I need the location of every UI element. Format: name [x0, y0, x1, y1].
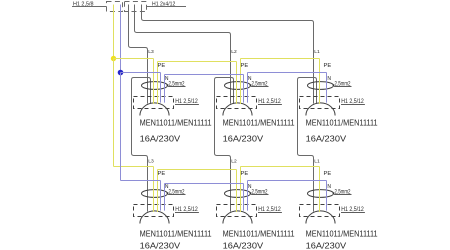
svg-text:H1 2,5/8: H1 2,5/8 [73, 2, 94, 8]
svg-text:16A/230V: 16A/230V [306, 241, 347, 250]
svg-text:MEN11011/MEN11111: MEN11011/MEN11111 [140, 117, 212, 127]
svg-text:PE: PE [324, 63, 332, 69]
svg-text:16A/230V: 16A/230V [223, 133, 264, 143]
svg-text:H1 2,5/12: H1 2,5/12 [258, 206, 281, 213]
svg-text:MEN11011/MEN11111: MEN11011/MEN11111 [223, 229, 295, 239]
svg-text:MEN11011/MEN11111: MEN11011/MEN11111 [223, 117, 295, 127]
svg-text:H1 2,5/12: H1 2,5/12 [175, 206, 198, 213]
svg-text:H1 2,5/12: H1 2,5/12 [175, 98, 198, 105]
svg-text:N: N [327, 184, 331, 190]
svg-text:MEN11011/MEN11111: MEN11011/MEN11111 [306, 117, 378, 127]
svg-text:L1: L1 [314, 49, 320, 55]
svg-text:16A/230V: 16A/230V [140, 133, 181, 143]
svg-text:H1 2,5/12: H1 2,5/12 [341, 98, 364, 105]
svg-text:L3: L3 [148, 49, 154, 55]
svg-text:MEN11011/MEN11111: MEN11011/MEN11111 [140, 229, 212, 239]
svg-text:16A/230V: 16A/230V [306, 133, 347, 143]
svg-text:L3: L3 [148, 158, 154, 164]
svg-text:16A/230V: 16A/230V [223, 241, 264, 250]
svg-text:PE: PE [158, 63, 166, 69]
svg-text:PE: PE [324, 171, 332, 177]
svg-text:16A/230V: 16A/230V [140, 241, 181, 250]
svg-text:H1 2,5/12: H1 2,5/12 [258, 98, 281, 105]
svg-text:L1: L1 [314, 158, 320, 164]
svg-text:PE: PE [241, 171, 249, 177]
svg-text:H1 2,5/12: H1 2,5/12 [341, 206, 364, 213]
svg-text:PE: PE [158, 171, 166, 177]
svg-text:MEN11011/MEN11111: MEN11011/MEN11111 [306, 229, 378, 239]
svg-text:L2: L2 [231, 158, 237, 164]
svg-text:N: N [327, 76, 331, 82]
svg-text:PE: PE [241, 63, 249, 69]
svg-text:L2: L2 [231, 49, 237, 55]
svg-text:H1 2x4/12: H1 2x4/12 [152, 2, 175, 8]
